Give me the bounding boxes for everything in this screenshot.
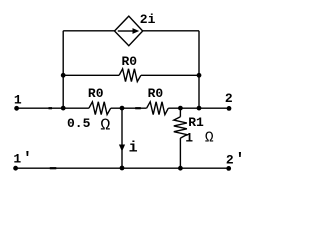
svg-text:i: i (129, 139, 138, 156)
svg-text:1: 1 (14, 93, 22, 108)
svg-text:2i: 2i (140, 12, 156, 27)
svg-text:': ' (235, 150, 245, 168)
svg-text:R0: R0 (88, 86, 104, 101)
svg-text:2: 2 (226, 152, 234, 167)
svg-text:2: 2 (225, 91, 233, 106)
svg-text:': ' (23, 149, 33, 167)
svg-text:R0: R0 (122, 54, 138, 69)
svg-text:R1: R1 (188, 115, 204, 130)
svg-text:Ω: Ω (205, 130, 214, 146)
svg-text:0.5: 0.5 (67, 116, 91, 131)
svg-text:R0: R0 (148, 86, 164, 101)
svg-text:Ω: Ω (100, 116, 110, 135)
svg-text:1: 1 (185, 130, 193, 145)
svg-text:1: 1 (13, 151, 21, 166)
